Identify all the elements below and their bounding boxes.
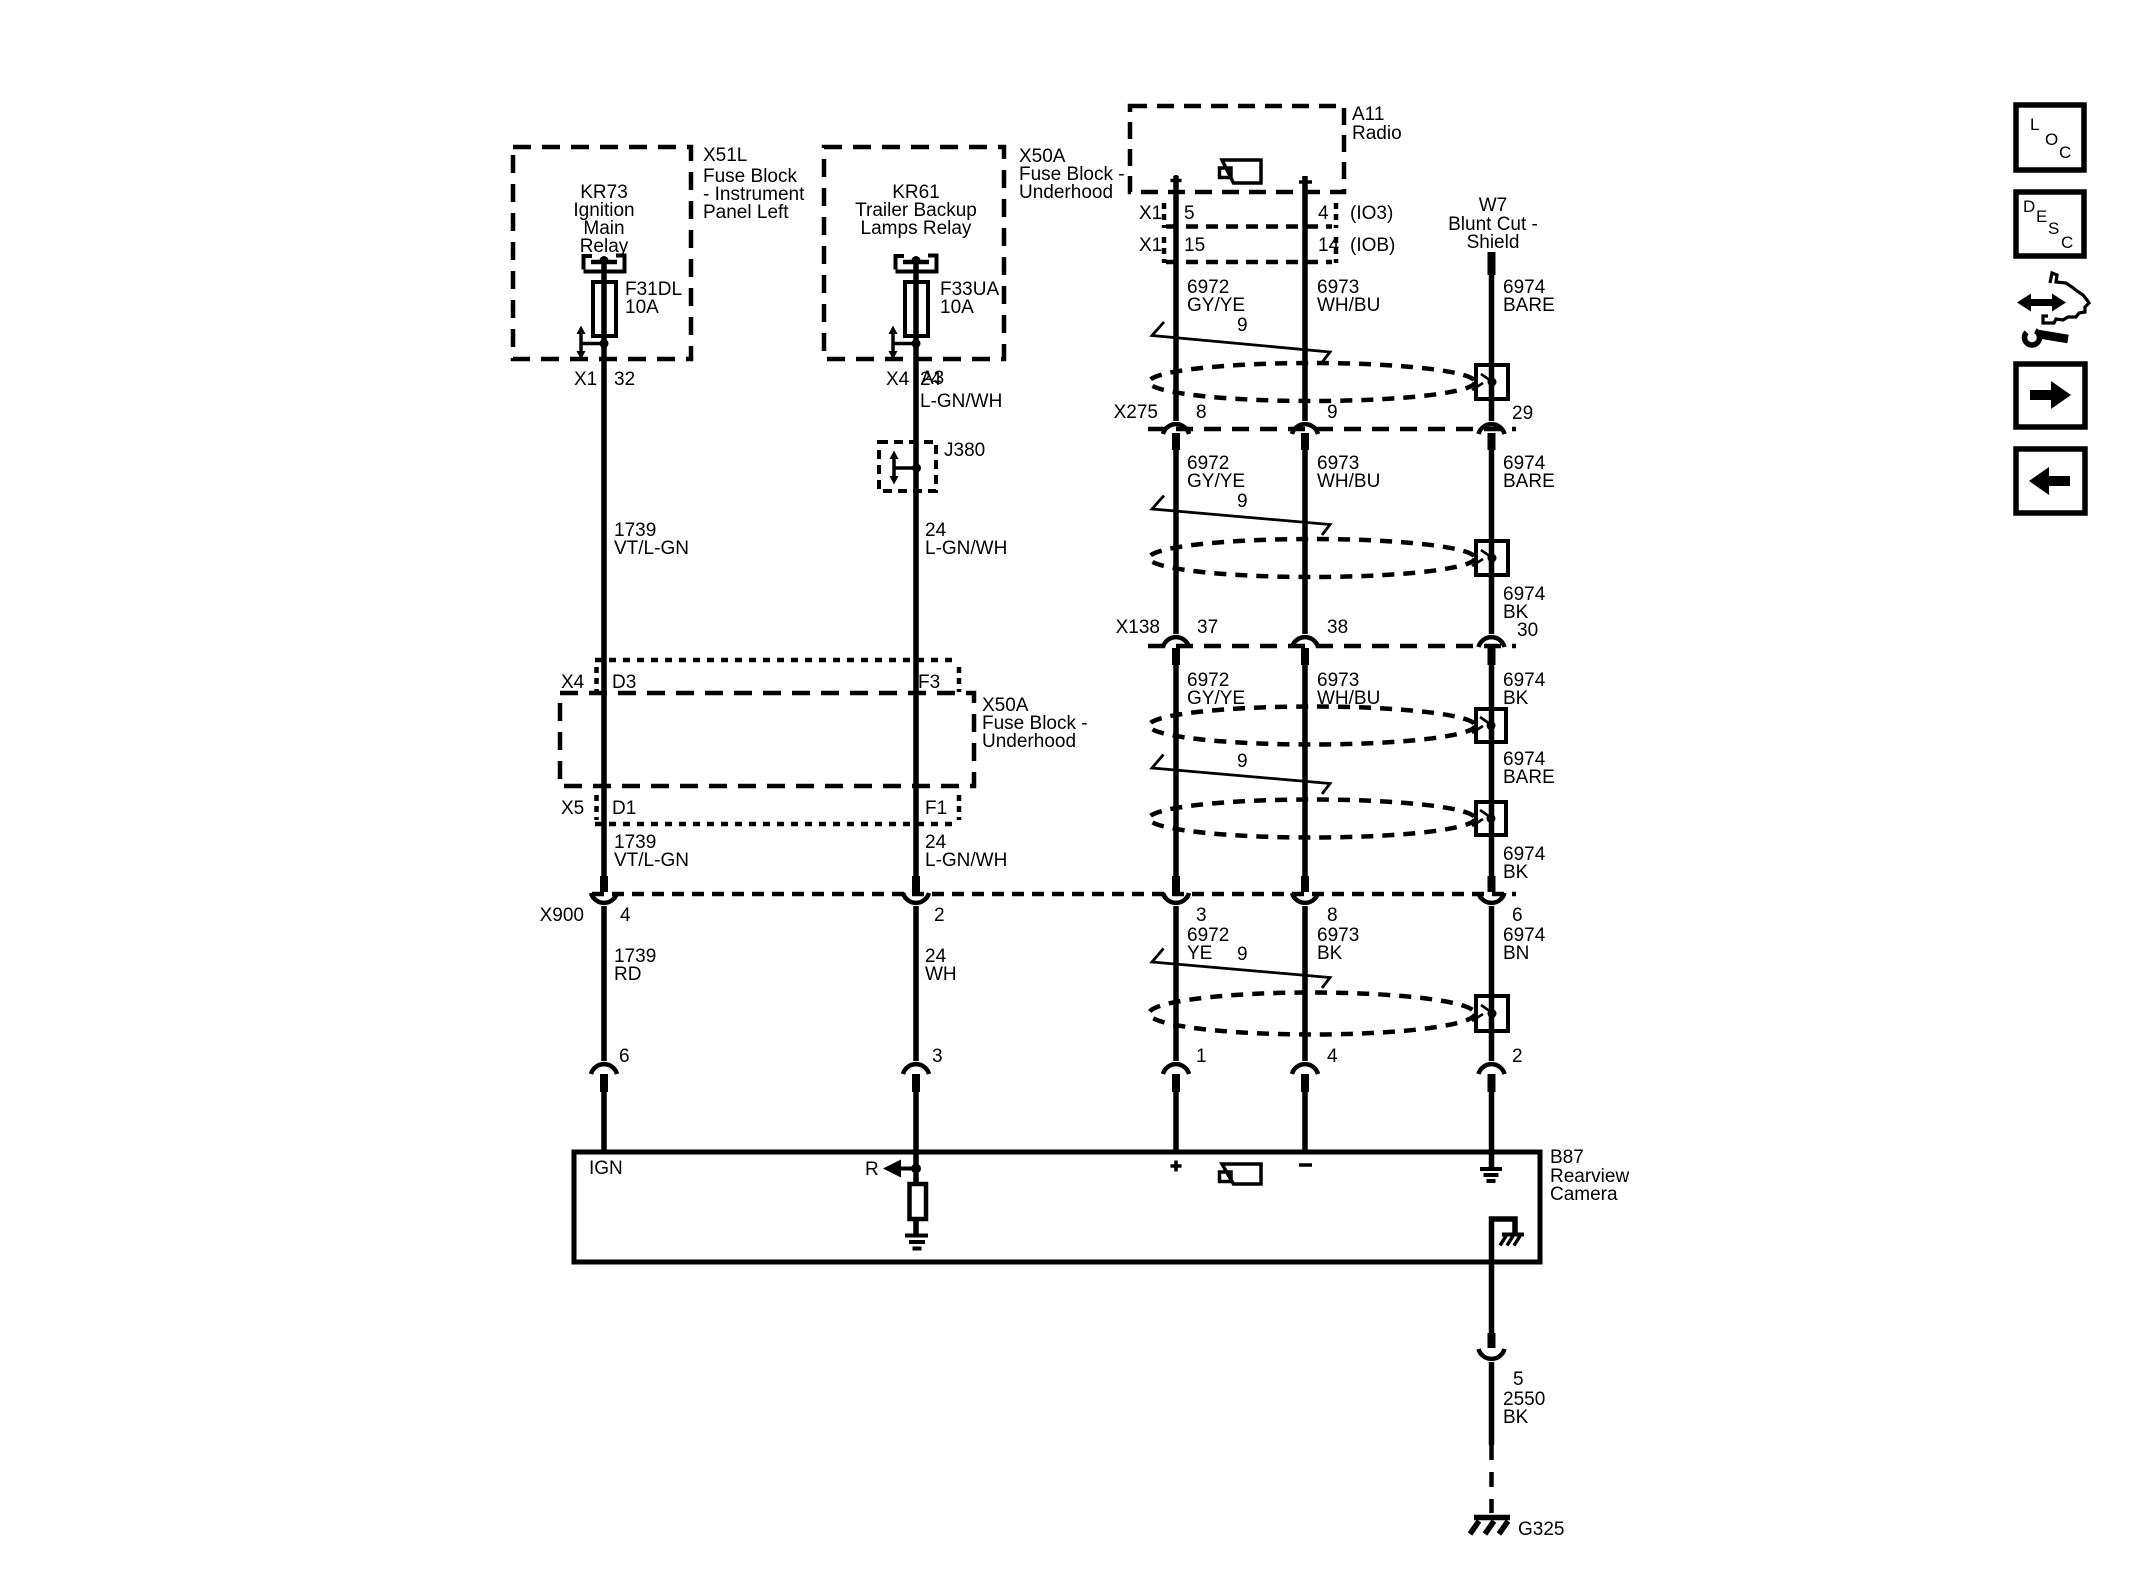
camera ground connector pin 5 (1479, 1333, 1524, 1390)
svg-text:R: R (865, 1159, 879, 1180)
relay KR61 contact symbol (894, 254, 939, 272)
svg-text:9: 9 (1237, 315, 1248, 336)
wire 6972 GY/YE segment 2 (1176, 449, 1245, 634)
relay KR73 label (573, 182, 634, 257)
svg-text:BARE: BARE (1503, 767, 1555, 788)
svg-text:4: 4 (1318, 203, 1329, 224)
icon LOC button (2016, 105, 2084, 170)
wire label 6974 BARE mid (1503, 749, 1555, 788)
svg-text:VT/L-GN: VT/L-GN (614, 850, 689, 871)
shield drain connection 4 (1472, 802, 1506, 835)
fuse block X50A underhood body box (560, 693, 1088, 786)
splice J380 (879, 440, 985, 491)
svg-text:4: 4 (620, 905, 631, 926)
wire 6972 YE (1176, 906, 1229, 1061)
connector X1 row IO3 (1139, 203, 1393, 228)
svg-text:BK: BK (1503, 1407, 1529, 1428)
connector X1 row IOB (1139, 235, 1395, 263)
svg-text:9: 9 (1327, 402, 1338, 423)
svg-text:L-GN/WH: L-GN/WH (920, 391, 1002, 412)
svg-text:2: 2 (1512, 1046, 1523, 1067)
svg-text:38: 38 (1327, 617, 1348, 638)
svg-text:14: 14 (1318, 235, 1340, 256)
wire 24 L-GN/WH from KR61 (913, 260, 919, 877)
svg-text:X1: X1 (574, 369, 597, 390)
connector X900 row (540, 894, 1523, 926)
svg-text:30: 30 (1517, 620, 1538, 641)
radio A11 box (1130, 104, 1402, 192)
twisted pair marker 3 with label 9 (1152, 751, 1330, 794)
shield ellipse 5 (1149, 993, 1475, 1035)
relay KR73 contact symbol (582, 254, 627, 272)
svg-text:X4: X4 (561, 672, 585, 693)
svg-text:X275: X275 (1114, 402, 1158, 423)
svg-text:GY/YE: GY/YE (1187, 688, 1245, 709)
camera icon in B87 (1220, 1164, 1262, 1184)
wire label 6974 BK above X900 (1503, 844, 1546, 883)
svg-text:GY/YE: GY/YE (1187, 295, 1245, 316)
svg-text:9: 9 (1237, 944, 1248, 965)
blunt cut W7 label (1448, 195, 1538, 253)
svg-text:Lamps Relay: Lamps Relay (861, 218, 972, 239)
shield ground symbol in camera (1480, 1169, 1502, 1181)
shield ellipse 1 (1149, 363, 1475, 401)
ground symbol inside camera (for R) (905, 1219, 928, 1249)
connector X275 row (1114, 402, 1534, 429)
svg-text:BK: BK (1317, 943, 1343, 964)
wire 6972 GY/YE segment 3 (1176, 664, 1245, 877)
svg-text:(IO3): (IO3) (1350, 203, 1393, 224)
svg-text:WH/BU: WH/BU (1317, 471, 1380, 492)
wire label 1739 VT/L-GN (614, 520, 689, 559)
fuse F33UA 10A (905, 279, 999, 336)
svg-text:4: 4 (1327, 1046, 1338, 1067)
svg-text:BARE: BARE (1503, 295, 1555, 316)
svg-text:5: 5 (1513, 1369, 1524, 1390)
fuse block X50A underhood: X5 connector row (561, 795, 959, 824)
twisted pair marker 1 with label 9 (1152, 315, 1330, 363)
camera icon in radio (1220, 160, 1262, 183)
pin label R with arrow (865, 1159, 921, 1180)
svg-text:Camera: Camera (1550, 1184, 1618, 1205)
shield ellipse 3 (1149, 707, 1475, 745)
wire 6974 BARE segment 1 (1492, 275, 1555, 421)
icon next arrow button (2016, 364, 2085, 427)
svg-text:Radio: Radio (1352, 123, 1402, 144)
twisted pair marker 4 with label 9 (1152, 944, 1330, 988)
wire 6974 BN (1492, 906, 1546, 1061)
svg-text:BK: BK (1503, 862, 1529, 883)
svg-text:IGN: IGN (589, 1158, 623, 1179)
svg-text:10A: 10A (940, 297, 974, 318)
svg-text:RD: RD (614, 964, 641, 985)
svg-text:YE: YE (1187, 943, 1212, 964)
svg-text:J380: J380 (944, 440, 985, 461)
node minus in radio (1299, 180, 1312, 184)
svg-text:(IOB): (IOB) (1350, 235, 1395, 256)
ground G325 (1470, 1518, 1564, 1541)
wire 6972 GY/YE segment 1 (1176, 176, 1245, 421)
shield drain connection 5 (1472, 996, 1508, 1031)
svg-text:Panel Left: Panel Left (703, 202, 789, 223)
node minus in camera (1299, 1163, 1312, 1167)
svg-text:W7: W7 (1479, 195, 1508, 216)
wire 1739 VT/L-GN from KR73 (601, 260, 607, 877)
svg-text:C: C (2061, 233, 2073, 252)
svg-text:D: D (2023, 197, 2035, 216)
svg-text:GY/YE: GY/YE (1187, 471, 1245, 492)
connector X1 pin 32 labels (574, 369, 635, 390)
svg-text:X51L: X51L (703, 145, 747, 166)
svg-text:5: 5 (1184, 203, 1195, 224)
node plus in camera (1171, 1161, 1182, 1172)
connector X4 pin A3 labels (A3 overstruck with 24) (886, 368, 1002, 412)
svg-text:37: 37 (1197, 617, 1218, 638)
svg-text:BK: BK (1503, 688, 1529, 709)
svg-text:D3: D3 (612, 672, 636, 693)
connector X138 row (1116, 617, 1539, 646)
rearview camera B87 box (574, 1147, 1629, 1262)
svg-text:6: 6 (619, 1046, 630, 1067)
svg-text:L: L (2030, 115, 2039, 134)
svg-text:8: 8 (1327, 905, 1338, 926)
wire 2550 BK (1492, 1362, 1546, 1513)
fuse block X51L box (513, 145, 805, 359)
wire stubs into camera (604, 1092, 1492, 1168)
svg-text:6: 6 (1512, 905, 1523, 926)
wire label 6974 BK above X138 (1503, 584, 1546, 623)
wire 6974 BARE segment 2 (1492, 449, 1555, 634)
svg-text:X5: X5 (561, 798, 584, 819)
fuse F33UA output clip (889, 326, 921, 360)
wire 6973 WH/BU segment 2 (1305, 449, 1380, 634)
svg-text:3: 3 (1196, 905, 1207, 926)
svg-text:E: E (2036, 207, 2047, 226)
svg-text:2: 2 (934, 905, 945, 926)
connector X900 terminals (591, 876, 1505, 903)
svg-text:9: 9 (1237, 491, 1248, 512)
svg-text:A11: A11 (1352, 104, 1384, 125)
svg-text:10A: 10A (625, 297, 659, 318)
fuse block X50A underhood top box (824, 146, 1125, 359)
svg-text:L-GN/WH: L-GN/WH (925, 850, 1007, 871)
icon DESC button (2016, 192, 2084, 256)
svg-text:L-GN/WH: L-GN/WH (925, 538, 1007, 559)
wire 24 WH (916, 906, 957, 1061)
shield ellipse 2 (1149, 539, 1475, 577)
twisted pair marker 2 with label 9 (1152, 491, 1330, 535)
icon back arrow button (2016, 449, 2085, 513)
shield drain connection 3 (1472, 709, 1506, 742)
svg-text:X1: X1 (1139, 203, 1162, 224)
svg-text:C: C (2059, 143, 2071, 162)
svg-text:WH: WH (925, 964, 957, 985)
relay KR61 label (855, 182, 977, 239)
resistor in camera (910, 1173, 927, 1219)
svg-text:VT/L-GN: VT/L-GN (614, 538, 689, 559)
svg-text:O: O (2045, 130, 2058, 149)
svg-text:Shield: Shield (1467, 232, 1520, 253)
svg-text:B87: B87 (1550, 1147, 1584, 1168)
wire 6974 BK segment 3 (1492, 664, 1546, 877)
svg-text:F3: F3 (918, 672, 940, 693)
svg-text:X900: X900 (540, 905, 584, 926)
fuse F31DL 10A (593, 279, 682, 336)
fuse F31DL output clip (577, 326, 609, 360)
wire 6973 WH/BU segment 3 (1305, 664, 1380, 877)
camera connector terminals (591, 1064, 1505, 1092)
svg-text:8: 8 (1196, 402, 1207, 423)
svg-text:BARE: BARE (1503, 471, 1555, 492)
blunt cut W7 stub (1488, 252, 1496, 275)
connector X275 terminals (1163, 424, 1505, 450)
wire 6973 BK (1305, 906, 1359, 1061)
shield drain connection 2 (1472, 541, 1508, 575)
svg-text:Underhood: Underhood (1019, 182, 1113, 203)
connector X138 terminals (1163, 637, 1505, 665)
svg-text:29: 29 (1512, 403, 1533, 424)
svg-text:WH/BU: WH/BU (1317, 295, 1380, 316)
svg-text:3: 3 (932, 1046, 943, 1067)
fuse block X50A underhood pass-through: X4 connector row (561, 660, 959, 693)
node plus in radio (1171, 175, 1182, 186)
svg-text:Underhood: Underhood (982, 731, 1076, 752)
svg-text:32: 32 (614, 369, 635, 390)
svg-text:X1: X1 (1139, 235, 1162, 256)
svg-text:X4: X4 (886, 369, 910, 390)
svg-text:S: S (2048, 219, 2059, 238)
shield drain connection 1 (1472, 365, 1508, 399)
wire label 1739 VT/L-GN lower (614, 832, 689, 871)
svg-text:15: 15 (1184, 235, 1205, 256)
shield ellipse 4 (1149, 800, 1475, 838)
camera connector pins row (619, 1046, 1523, 1067)
wire 1739 RD (604, 906, 656, 1061)
wire label 24 L-GN/WH lower (925, 832, 1007, 871)
svg-text:9: 9 (1237, 751, 1248, 772)
svg-text:A3: A3 (921, 368, 944, 389)
wire label 24 L-GN/WH (925, 520, 1007, 559)
wire 6973 WH/BU segment 1 (1305, 176, 1380, 421)
svg-text:X138: X138 (1116, 617, 1160, 638)
svg-text:F1: F1 (925, 798, 947, 819)
internal chassis ground with elbow in camera (1492, 1219, 1525, 1333)
svg-text:BN: BN (1503, 943, 1529, 964)
svg-text:D1: D1 (612, 798, 636, 819)
svg-text:1: 1 (1196, 1046, 1207, 1067)
icon component view (arrow, outline, wrench) (2017, 273, 2089, 345)
svg-text:G325: G325 (1518, 1519, 1564, 1540)
